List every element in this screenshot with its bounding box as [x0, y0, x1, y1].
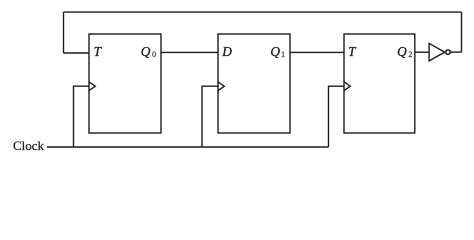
- svg-text:T: T: [94, 44, 103, 59]
- flip-flop U1 body (T flip-flop): [89, 34, 161, 133]
- svg-text:2: 2: [408, 50, 412, 59]
- svg-text:D: D: [221, 44, 232, 59]
- svg-text:0: 0: [152, 50, 156, 59]
- clock chevron U1: [89, 82, 95, 91]
- svg-text:1: 1: [281, 50, 285, 59]
- wire feedback right riser: [461, 12, 463, 52]
- svg-text:Q: Q: [397, 44, 407, 59]
- wire feedback left drop: [63, 12, 65, 53]
- flip-flop U3 body (T flip-flop): [344, 34, 415, 133]
- wire clock branch to U3: [329, 86, 345, 147]
- wire clock branch to U2: [202, 86, 218, 147]
- clock chevron U2: [218, 82, 224, 91]
- wire feedback top run: [64, 11, 462, 13]
- svg-text:T: T: [348, 44, 357, 59]
- inverter U4 triangle: [429, 43, 445, 61]
- wire clock branch to U1: [74, 86, 90, 147]
- wire Q0 to D input: [161, 51, 218, 53]
- svg-text:Clock: Clock: [13, 138, 45, 153]
- inverter U4 bubble: [446, 50, 450, 54]
- flip-flop U2 body (D flip-flop): [218, 34, 290, 133]
- wire inverter output: [451, 51, 462, 53]
- wire Q2 to inverter input: [415, 51, 429, 53]
- clock chevron U3: [344, 82, 350, 91]
- svg-text:Q: Q: [141, 44, 151, 59]
- wire feedback into U1 T input: [64, 52, 90, 54]
- wire clock bus: [47, 146, 329, 148]
- svg-text:Q: Q: [270, 44, 280, 59]
- wire Q1 to U3 T input: [290, 51, 344, 53]
